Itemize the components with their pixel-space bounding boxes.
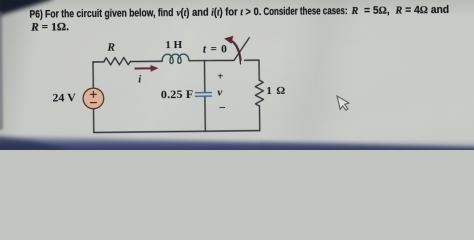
wire switch to top-right corner and right branch upper bbox=[244, 60, 259, 80]
wire between R and inductor bbox=[130, 60, 162, 62]
inductor L1 1H bbox=[162, 54, 189, 64]
label 24 V bbox=[52, 91, 76, 106]
switch opening arrow (maroon) bbox=[224, 36, 241, 61]
capacitor C 0.25F plates bbox=[195, 93, 212, 97]
switch blade t=0 bbox=[234, 38, 250, 61]
switch motion arc bbox=[231, 41, 241, 64]
label 1 H bbox=[165, 39, 182, 51]
left branch upper wire bbox=[92, 62, 94, 88]
wire right branch lower bbox=[259, 106, 261, 130]
label i bbox=[138, 73, 141, 85]
current arrow i bbox=[135, 65, 159, 72]
label 1 ohm bbox=[266, 85, 286, 97]
dark surround top-left corner wedge bbox=[0, 0, 55, 18]
capacitor branch upper wire bbox=[203, 61, 205, 93]
label t = 0 bbox=[203, 44, 228, 56]
label + v - for capacitor bbox=[217, 71, 223, 83]
dark surround left edge strip bbox=[0, 10, 3, 131]
label R bbox=[107, 42, 115, 54]
mouse cursor bbox=[337, 96, 349, 110]
resistor 1ohm (right, vertical) bbox=[255, 80, 263, 106]
wire top-left stub bbox=[93, 61, 104, 63]
voltage source 24V circle bbox=[83, 88, 104, 109]
left branch lower wire bbox=[93, 109, 95, 133]
label 0.25 F bbox=[161, 86, 194, 101]
dark surround bottom navy band bbox=[0, 136, 474, 154]
source plus sign bbox=[90, 91, 97, 103]
capacitor branch lower wire bbox=[204, 96, 206, 131]
source minus sign bbox=[90, 102, 97, 104]
wire inductor to switch bbox=[189, 59, 233, 62]
resistor R bbox=[104, 57, 131, 65]
bottom wire bbox=[94, 131, 260, 133]
